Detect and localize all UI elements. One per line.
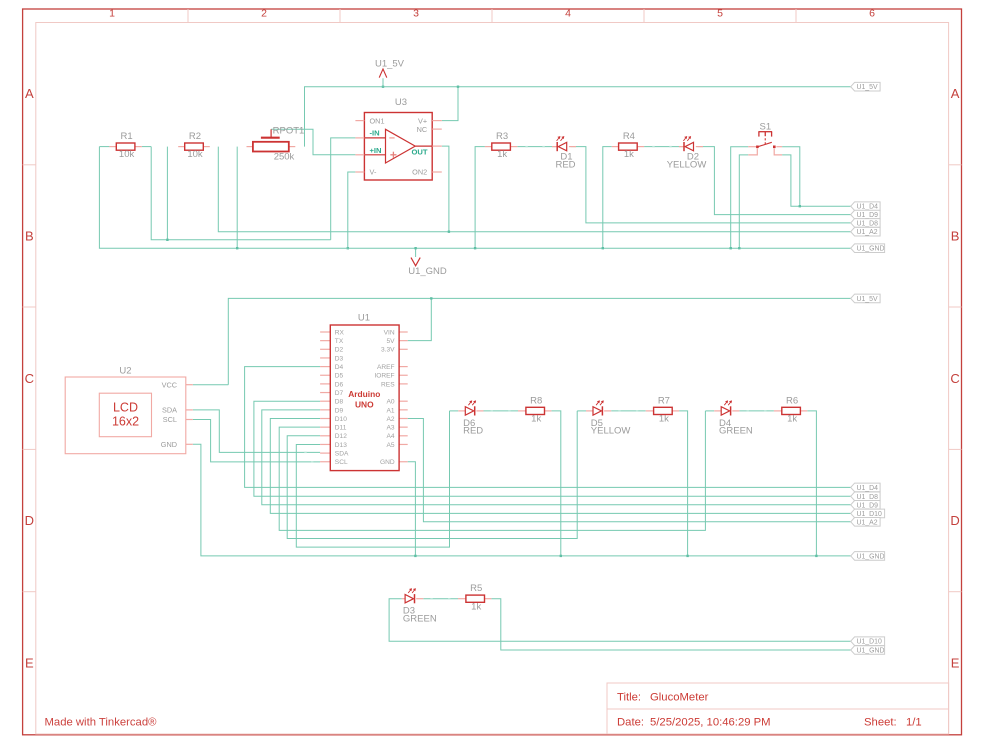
svg-text:U1_D10: U1_D10 <box>857 639 882 646</box>
svg-text:R7: R7 <box>658 395 670 406</box>
wire S1 pin4 to net U1_D4 <box>782 155 800 206</box>
junction GND bus at U3 V- <box>347 247 349 249</box>
svg-text:RPOT1: RPOT1 <box>273 125 305 136</box>
svg-text:A4: A4 <box>387 433 395 440</box>
svg-text:D11: D11 <box>335 425 347 432</box>
wire R2 leads <box>178 146 210 148</box>
resistor R4 <box>619 131 638 160</box>
svg-text:GREEN: GREEN <box>403 613 437 624</box>
op-amp U3 <box>355 97 441 180</box>
LED D5 <box>591 400 631 436</box>
svg-text:A1: A1 <box>387 407 395 414</box>
node U1_D10 flag (row D) <box>851 509 885 518</box>
svg-text:U1_5V: U1_5V <box>375 59 405 70</box>
wire R2 left to bus B <box>166 147 168 240</box>
svg-text:10k: 10k <box>187 149 203 160</box>
ground symbol U1_GND <box>408 248 447 277</box>
wire R8 leads <box>518 410 551 412</box>
wire RPOT1 wiper to U3 +IN <box>271 129 355 155</box>
svg-text:SCL: SCL <box>335 459 348 466</box>
wire U1 A2 to net U1_A2 <box>408 419 851 522</box>
svg-text:1k: 1k <box>497 149 507 160</box>
resistor R1 <box>116 131 135 160</box>
resistor R3 <box>492 131 511 160</box>
svg-text:U1_5V: U1_5V <box>857 84 878 91</box>
node U1_5V flag (row C) <box>851 294 880 303</box>
svg-text:V-: V- <box>370 168 377 177</box>
svg-text:R1: R1 <box>121 131 133 142</box>
svg-text:A3: A3 <box>387 425 395 432</box>
svg-text:E: E <box>25 655 34 670</box>
svg-text:IOREF: IOREF <box>374 373 394 380</box>
wire R3 leads <box>485 146 517 148</box>
wire GND bus (row B) <box>99 147 850 249</box>
wire LCD GND to GND bus <box>193 444 851 556</box>
svg-text:TX: TX <box>335 338 344 345</box>
svg-text:3.3V: 3.3V <box>381 347 395 354</box>
svg-text:D: D <box>25 513 34 528</box>
svg-text:U1: U1 <box>358 313 370 324</box>
wire R6 to GND bus <box>807 411 816 556</box>
svg-text:Date:: Date: <box>617 717 644 729</box>
junction GND bus at R6 <box>815 555 817 557</box>
svg-text:U1_D4: U1_D4 <box>857 485 879 492</box>
svg-text:SDA: SDA <box>335 451 349 458</box>
svg-text:1k: 1k <box>531 414 541 425</box>
svg-text:U2: U2 <box>119 365 131 376</box>
svg-text:U1_A2: U1_A2 <box>857 519 878 526</box>
LED D4 <box>719 400 753 436</box>
junction 5V bus at V+ drop <box>457 86 459 88</box>
svg-text:R4: R4 <box>623 131 635 142</box>
junction GND bus at U1 GND <box>414 555 416 557</box>
svg-text:1/1: 1/1 <box>906 717 922 729</box>
junction GND bus at S1 pin2 <box>738 247 740 249</box>
wire D2 leads <box>679 146 703 148</box>
svg-text:4: 4 <box>565 7 571 19</box>
wire S1 pin2 to GND bus <box>739 155 748 248</box>
wire R7 leads <box>646 410 679 412</box>
resistor R6 <box>782 395 801 424</box>
svg-text:RES: RES <box>381 381 395 388</box>
svg-text:D13: D13 <box>335 442 347 449</box>
wire R8 to GND bus <box>551 411 560 556</box>
node U1_D4 flag <box>851 202 880 211</box>
svg-text:2: 2 <box>261 7 267 19</box>
svg-text:ON2: ON2 <box>412 168 427 177</box>
LED D3 <box>403 588 437 624</box>
svg-text:-IN: -IN <box>370 128 380 137</box>
resistor R8 <box>526 395 545 424</box>
LCD U2 16x2 <box>65 365 186 453</box>
svg-text:U1_D10: U1_D10 <box>857 511 882 518</box>
wire LCD SDA to U1 SDA <box>193 410 320 453</box>
svg-text:YELLOW: YELLOW <box>667 159 707 170</box>
svg-text:D5: D5 <box>335 373 344 380</box>
wire D3 to R5 <box>423 598 458 599</box>
svg-text:U1_GND: U1_GND <box>857 553 885 560</box>
power flag U1_5V (top) <box>375 59 405 87</box>
LED D2 <box>667 136 707 170</box>
svg-text:VCC: VCC <box>162 380 177 389</box>
svg-text:A5: A5 <box>387 442 395 449</box>
svg-text:D10: D10 <box>335 416 347 423</box>
wire U1 pin stubs right <box>399 332 408 462</box>
wire D1 anode to net U1_D8 <box>571 147 851 223</box>
svg-text:1k: 1k <box>471 601 481 612</box>
node U1_D9 flag (row D) <box>851 501 880 510</box>
svg-text:3: 3 <box>413 7 419 19</box>
svg-text:C: C <box>25 371 34 386</box>
svg-text:Arduino: Arduino <box>348 389 380 399</box>
svg-text:D8: D8 <box>335 399 344 406</box>
wire R4 leads <box>612 146 644 148</box>
node U1_GND flag (row D) <box>851 552 885 561</box>
wire U3 OUT to bus A <box>442 146 449 232</box>
svg-text:R8: R8 <box>530 395 542 406</box>
node U1_D4 flag (row D) <box>851 483 880 492</box>
node U1_D10 flag (row E) <box>851 637 885 646</box>
svg-text:NC: NC <box>417 125 428 134</box>
svg-text:R6: R6 <box>786 395 798 406</box>
svg-text:R5: R5 <box>470 583 482 594</box>
node U1_GND flag (row E) <box>851 646 885 655</box>
node U1_D8 flag (row D) <box>851 492 880 501</box>
resistor R7 <box>654 395 673 424</box>
svg-text:YELLOW: YELLOW <box>591 426 631 437</box>
wire LCD pin stubs <box>186 385 193 445</box>
svg-text:VIN: VIN <box>384 329 395 336</box>
wire U1 D11 to LED D4 <box>279 411 705 531</box>
node U1_D9 flag <box>851 210 880 219</box>
svg-text:D3: D3 <box>335 355 344 362</box>
svg-text:16x2: 16x2 <box>112 415 139 429</box>
wire U1 D13 to LED D6 <box>296 411 449 547</box>
wire bus B (R1 right / R2 left / U3 -IN) <box>151 147 331 240</box>
svg-text:LCD: LCD <box>113 401 138 415</box>
junction bus A at U3 OUT <box>448 231 450 233</box>
wire LED D6 row <box>450 410 519 411</box>
wire S1 pin3 to net U1_D4 <box>782 147 851 207</box>
svg-text:U1_D4: U1_D4 <box>857 204 879 211</box>
svg-text:D: D <box>950 513 959 528</box>
junction 5V bus at power flag stub <box>382 86 384 88</box>
wire RPOT1 leads <box>247 146 296 148</box>
wire LCD SCL to U1 SCL <box>193 420 320 463</box>
wire U1 pin stubs left <box>320 332 330 462</box>
svg-text:U1_D9: U1_D9 <box>857 212 879 219</box>
svg-text:A2: A2 <box>387 416 395 423</box>
node U1_GND flag (row B) <box>851 244 885 253</box>
svg-text:RX: RX <box>335 329 345 336</box>
svg-text:1k: 1k <box>659 414 669 425</box>
svg-text:5: 5 <box>717 7 723 19</box>
wire LED D5 row <box>577 410 646 411</box>
wire R7 to GND bus <box>679 411 688 556</box>
svg-text:U1_D8: U1_D8 <box>857 220 879 227</box>
svg-text:D7: D7 <box>335 390 344 397</box>
wire net U1_5V middle bus <box>228 298 850 384</box>
junction bus B at R2 left <box>166 239 168 241</box>
svg-text:Title:: Title: <box>617 692 641 704</box>
wire R6 leads <box>774 410 807 412</box>
wire U3 V+ to 5V bus <box>442 87 458 121</box>
pushbutton S1 <box>748 121 782 155</box>
svg-text:5V: 5V <box>387 338 396 345</box>
junction net U1_D4 at S1 pins <box>799 205 801 207</box>
wire LED D3 to net U1_D10 <box>389 599 851 642</box>
svg-text:ON1: ON1 <box>370 116 385 125</box>
wire R3 left to GND bus <box>475 147 485 249</box>
wire LCD VCC lead <box>193 384 229 386</box>
svg-text:A: A <box>951 86 960 101</box>
wire U3 V- to GND bus <box>348 172 356 248</box>
wire R4 to D2 <box>644 146 683 147</box>
LED D1 <box>555 136 575 170</box>
resistor R2 <box>185 131 204 160</box>
wire U1 D9 to net U1_D9 <box>262 410 851 505</box>
wire LED D3 leads <box>402 598 423 600</box>
node U1_A2 flag <box>851 227 880 236</box>
wire R3 to D1 <box>517 146 556 147</box>
svg-text:GlucoMeter: GlucoMeter <box>650 692 709 704</box>
svg-text:U1_D9: U1_D9 <box>857 502 879 509</box>
svg-text:6: 6 <box>869 7 875 19</box>
svg-text:S1: S1 <box>759 121 771 132</box>
svg-text:E: E <box>951 655 960 670</box>
wire R5 leads <box>458 598 491 600</box>
svg-text:AREF: AREF <box>377 364 395 371</box>
svg-text:1k: 1k <box>624 149 634 160</box>
svg-text:U1_GND: U1_GND <box>857 648 885 655</box>
svg-text:Made with Tinkercad®: Made with Tinkercad® <box>45 717 158 729</box>
wire R5 to net U1_GND <box>491 599 850 650</box>
wire R4 left to GND bus <box>603 147 612 249</box>
wire R1 leads <box>99 146 151 148</box>
node U1_D8 flag <box>851 219 880 228</box>
svg-text:+IN: +IN <box>370 146 382 155</box>
node U1_5V flag (row A) <box>851 82 880 91</box>
svg-text:D6: D6 <box>335 381 344 388</box>
LED D6 <box>463 400 483 436</box>
junction GND bus at R4 left <box>602 247 604 249</box>
wire D2 anode to net U1_D9 <box>698 147 851 215</box>
svg-text:U1_GND: U1_GND <box>408 266 447 277</box>
wire U1 D8 to net U1_D8 <box>254 401 851 496</box>
svg-text:GND: GND <box>161 440 177 449</box>
wire net U1_5V top bus <box>305 87 851 147</box>
svg-text:1: 1 <box>109 7 115 19</box>
junction GND bus at R8 <box>560 555 562 557</box>
svg-text:5/25/2025, 10:46:29 PM: 5/25/2025, 10:46:29 PM <box>650 717 771 729</box>
wire U1 GND pin to GND bus <box>408 462 416 556</box>
wire U1 5V pin to 5V bus <box>408 298 432 340</box>
wire bus A (R2 right / U3 OUT / U1_A2) <box>218 147 850 232</box>
svg-text:GND: GND <box>380 459 395 466</box>
svg-text:SCL: SCL <box>163 415 177 424</box>
wire LED D5 leads <box>586 410 611 412</box>
junction GND bus at RPOT1 left <box>236 247 238 249</box>
wire LED D4 row <box>705 410 774 411</box>
svg-text:D9: D9 <box>335 407 344 414</box>
svg-text:A: A <box>25 86 34 101</box>
svg-text:OUT: OUT <box>412 148 428 157</box>
wire U1 D4 to net U1_D4 <box>245 367 851 488</box>
junction GND bus at S1 pin1 <box>730 247 732 249</box>
svg-text:Sheet:: Sheet: <box>864 717 897 729</box>
wire RPOT1 left to GND bus <box>236 147 238 249</box>
wire LED D6 leads <box>458 410 483 412</box>
svg-text:RED: RED <box>555 159 575 170</box>
svg-text:A0: A0 <box>387 399 395 406</box>
svg-text:U1_D8: U1_D8 <box>857 494 879 501</box>
wire D1 leads <box>552 146 576 148</box>
potentiometer RPOT1 <box>253 125 304 162</box>
svg-text:1k: 1k <box>787 414 797 425</box>
junction GND bus at ground symbol <box>414 247 416 249</box>
svg-text:U1_A2: U1_A2 <box>857 229 878 236</box>
Arduino UNO U1 <box>330 313 399 471</box>
wire U3 -IN to bus B <box>331 138 356 240</box>
svg-text:B: B <box>951 229 960 244</box>
svg-text:D12: D12 <box>335 433 347 440</box>
svg-text:U1_GND: U1_GND <box>857 246 885 253</box>
svg-text:10k: 10k <box>119 149 135 160</box>
junction 5V middle bus at U1 5V drop <box>430 297 432 299</box>
wire U1 D10 to net U1_D10 <box>270 419 850 514</box>
wire LED D4 leads <box>714 410 739 412</box>
svg-text:B: B <box>25 229 34 244</box>
svg-text:UNO: UNO <box>355 400 374 410</box>
svg-text:C: C <box>950 371 959 386</box>
svg-text:RED: RED <box>463 426 483 437</box>
svg-text:GREEN: GREEN <box>719 426 753 437</box>
node U1_A2 flag (row D) <box>851 518 880 527</box>
svg-text:U1_5V: U1_5V <box>857 296 878 303</box>
svg-text:SDA: SDA <box>162 406 177 415</box>
junction GND bus at R7 <box>686 555 688 557</box>
wire U1 D12 to LED D5 <box>287 411 577 539</box>
svg-text:U3: U3 <box>395 97 407 108</box>
svg-text:D4: D4 <box>335 364 344 371</box>
wire S1 pin1 to GND bus <box>731 147 749 249</box>
svg-text:R3: R3 <box>496 131 508 142</box>
junction GND bus at R3 left <box>474 247 476 249</box>
svg-text:R2: R2 <box>189 131 201 142</box>
svg-text:D2: D2 <box>335 347 344 354</box>
svg-text:250k: 250k <box>274 152 295 163</box>
resistor R5 <box>466 583 485 612</box>
